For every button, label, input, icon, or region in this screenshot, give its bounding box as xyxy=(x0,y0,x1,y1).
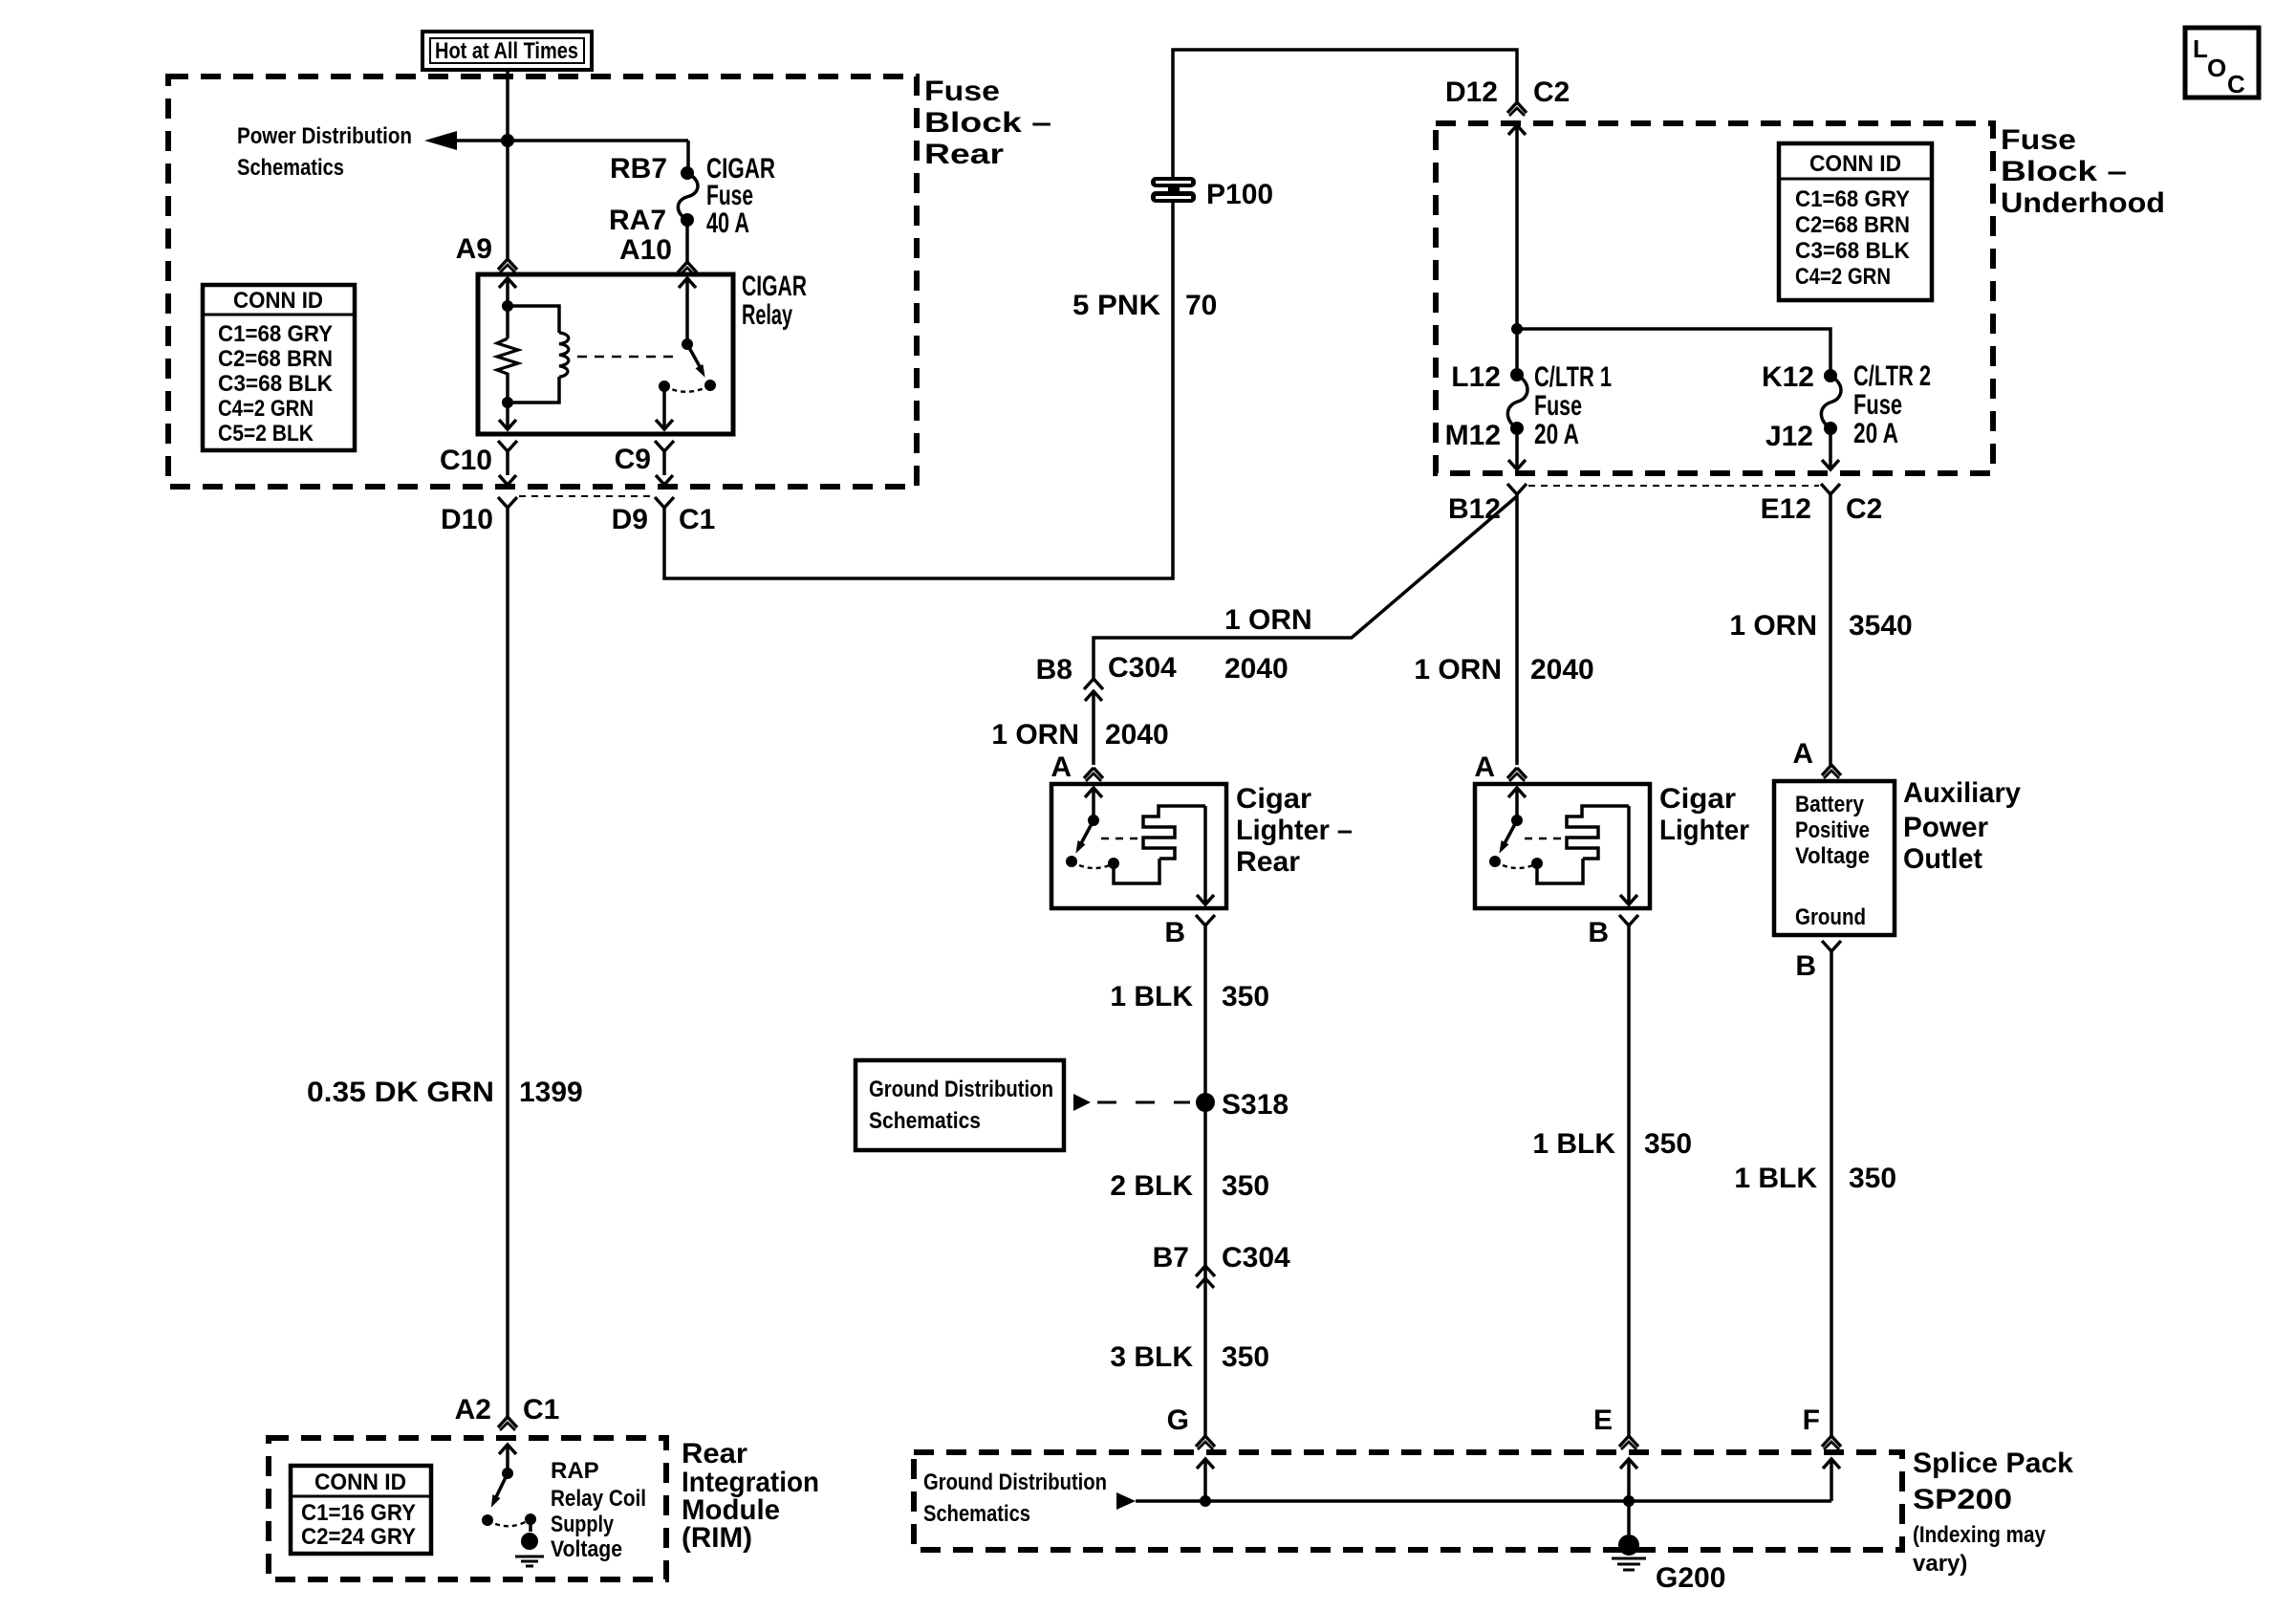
svg-text:Outlet: Outlet xyxy=(1903,843,1982,875)
svg-text:Cigar: Cigar xyxy=(1236,783,1311,815)
svg-text:B: B xyxy=(1164,917,1185,948)
svg-text:A9: A9 xyxy=(456,233,492,265)
svg-text:C1: C1 xyxy=(523,1394,559,1426)
svg-text:O: O xyxy=(2207,54,2226,82)
svg-text:B: B xyxy=(1588,917,1609,948)
svg-text:RAP: RAP xyxy=(551,1458,599,1484)
svg-text:C304: C304 xyxy=(1222,1242,1290,1274)
svg-text:L12: L12 xyxy=(1451,361,1501,393)
svg-text:C1: C1 xyxy=(679,504,715,535)
svg-text:A: A xyxy=(1051,751,1072,783)
svg-text:D12: D12 xyxy=(1445,76,1498,108)
svg-text:(RIM): (RIM) xyxy=(682,1522,752,1554)
svg-text:Schematics: Schematics xyxy=(237,155,344,181)
svg-text:K12: K12 xyxy=(1762,361,1814,393)
svg-text:C4=2 GRN: C4=2 GRN xyxy=(1795,264,1891,290)
svg-text:350: 350 xyxy=(1849,1163,1896,1194)
svg-text:F: F xyxy=(1803,1404,1820,1436)
svg-text:C1=16 GRY: C1=16 GRY xyxy=(301,1500,416,1526)
svg-text:Voltage: Voltage xyxy=(1795,843,1870,869)
svg-text:Supply: Supply xyxy=(551,1512,615,1537)
svg-text:Rear: Rear xyxy=(1236,846,1300,878)
svg-text:C/LTR 2: C/LTR 2 xyxy=(1853,360,1931,392)
svg-text:C2=24 GRY: C2=24 GRY xyxy=(301,1524,416,1550)
svg-text:A2: A2 xyxy=(455,1394,491,1426)
svg-text:CONN ID: CONN ID xyxy=(1809,151,1901,177)
svg-text:G200: G200 xyxy=(1656,1562,1725,1594)
svg-text:L: L xyxy=(2193,34,2208,63)
svg-text:Hot at All Times: Hot at All Times xyxy=(435,38,578,64)
svg-text:S318: S318 xyxy=(1222,1089,1289,1121)
svg-text:40 A: 40 A xyxy=(706,207,749,239)
svg-text:5 PNK: 5 PNK xyxy=(1072,290,1160,321)
svg-text:1 ORN: 1 ORN xyxy=(1224,604,1312,636)
svg-text:20 A: 20 A xyxy=(1534,419,1579,450)
svg-text:Block –: Block – xyxy=(2001,156,2127,187)
svg-text:0.35 DK GRN: 0.35 DK GRN xyxy=(307,1077,494,1108)
svg-text:350: 350 xyxy=(1222,981,1269,1012)
svg-text:1 BLK: 1 BLK xyxy=(1110,981,1193,1012)
svg-text:C2=68 BRN: C2=68 BRN xyxy=(218,346,333,372)
svg-text:C4=2 GRN: C4=2 GRN xyxy=(218,396,314,422)
svg-text:Relay: Relay xyxy=(742,299,792,331)
svg-text:1 BLK: 1 BLK xyxy=(1734,1163,1817,1194)
svg-text:D10: D10 xyxy=(441,504,493,535)
svg-text:vary): vary) xyxy=(1913,1551,1967,1577)
svg-text:A: A xyxy=(1792,738,1813,770)
svg-text:Voltage: Voltage xyxy=(551,1536,622,1562)
svg-text:A: A xyxy=(1474,751,1495,783)
svg-text:Relay Coil: Relay Coil xyxy=(551,1486,646,1512)
svg-text:C/LTR 1: C/LTR 1 xyxy=(1534,361,1612,393)
svg-text:C3=68 BLK: C3=68 BLK xyxy=(1795,238,1911,264)
svg-text:Ground: Ground xyxy=(1795,904,1866,930)
svg-text:Rear: Rear xyxy=(924,139,1004,170)
svg-text:Power Distribution: Power Distribution xyxy=(237,123,412,149)
svg-text:Schematics: Schematics xyxy=(923,1501,1030,1527)
svg-text:Fuse: Fuse xyxy=(2001,124,2076,156)
svg-text:Lighter –: Lighter – xyxy=(1236,815,1353,846)
svg-text:(Indexing may: (Indexing may xyxy=(1913,1522,2047,1548)
svg-text:Block –: Block – xyxy=(924,107,1051,139)
svg-text:A10: A10 xyxy=(619,234,672,266)
svg-text:1 ORN: 1 ORN xyxy=(1729,610,1817,642)
svg-text:C3=68 BLK: C3=68 BLK xyxy=(218,371,334,397)
svg-text:1 BLK: 1 BLK xyxy=(1532,1128,1615,1160)
svg-text:350: 350 xyxy=(1222,1170,1269,1202)
svg-text:3540: 3540 xyxy=(1849,610,1913,642)
svg-text:Ground Distribution: Ground Distribution xyxy=(869,1077,1053,1102)
svg-text:CIGAR: CIGAR xyxy=(742,271,807,302)
svg-text:C: C xyxy=(2227,70,2245,98)
svg-text:M12: M12 xyxy=(1445,420,1501,451)
svg-text:2 BLK: 2 BLK xyxy=(1110,1170,1193,1202)
svg-text:Battery: Battery xyxy=(1795,792,1865,817)
svg-text:Schematics: Schematics xyxy=(869,1108,981,1134)
svg-text:350: 350 xyxy=(1644,1128,1692,1160)
svg-text:C1=68 GRY: C1=68 GRY xyxy=(1795,186,1910,212)
svg-text:CONN ID: CONN ID xyxy=(314,1469,406,1495)
svg-text:E12: E12 xyxy=(1761,493,1811,525)
svg-text:C5=2 BLK: C5=2 BLK xyxy=(218,421,314,446)
svg-text:C1=68 GRY: C1=68 GRY xyxy=(218,321,333,347)
svg-text:2040: 2040 xyxy=(1530,654,1594,686)
svg-text:SP200: SP200 xyxy=(1913,1484,2012,1515)
svg-text:C9: C9 xyxy=(615,444,651,475)
svg-text:Cigar: Cigar xyxy=(1659,783,1736,815)
svg-text:B12: B12 xyxy=(1448,493,1501,525)
svg-text:B: B xyxy=(1795,950,1816,982)
svg-text:C2: C2 xyxy=(1846,493,1882,525)
svg-text:350: 350 xyxy=(1222,1341,1269,1373)
svg-text:C304: C304 xyxy=(1108,652,1177,684)
svg-text:1 ORN: 1 ORN xyxy=(991,719,1079,751)
svg-text:Fuse: Fuse xyxy=(1853,389,1902,421)
svg-text:Splice Pack: Splice Pack xyxy=(1913,1448,2073,1479)
svg-text:C10: C10 xyxy=(440,445,492,476)
svg-text:Auxiliary: Auxiliary xyxy=(1903,777,2021,809)
svg-text:B7: B7 xyxy=(1153,1242,1189,1274)
svg-text:3 BLK: 3 BLK xyxy=(1110,1341,1193,1373)
svg-text:G: G xyxy=(1167,1404,1189,1436)
svg-text:Underhood: Underhood xyxy=(2001,187,2165,219)
svg-text:J12: J12 xyxy=(1765,421,1813,452)
svg-text:RA7: RA7 xyxy=(609,205,666,236)
svg-text:B8: B8 xyxy=(1036,654,1072,686)
svg-text:Lighter: Lighter xyxy=(1659,815,1749,846)
svg-text:2040: 2040 xyxy=(1224,653,1289,685)
svg-text:Fuse: Fuse xyxy=(924,76,1000,107)
svg-text:Rear: Rear xyxy=(682,1438,747,1469)
svg-text:CONN ID: CONN ID xyxy=(233,288,323,314)
svg-text:1 ORN: 1 ORN xyxy=(1414,654,1502,686)
svg-text:C2=68 BRN: C2=68 BRN xyxy=(1795,212,1910,238)
svg-text:Ground Distribution: Ground Distribution xyxy=(923,1469,1107,1495)
svg-text:RB7: RB7 xyxy=(610,153,667,185)
svg-text:2040: 2040 xyxy=(1105,719,1169,751)
svg-text:1399: 1399 xyxy=(519,1077,583,1108)
svg-text:E: E xyxy=(1593,1404,1613,1436)
svg-text:P100: P100 xyxy=(1206,179,1273,210)
svg-text:Power: Power xyxy=(1903,812,1988,843)
svg-text:20 A: 20 A xyxy=(1853,418,1898,449)
svg-text:C2: C2 xyxy=(1533,76,1570,108)
svg-text:Positive: Positive xyxy=(1795,817,1870,843)
svg-text:70: 70 xyxy=(1185,290,1217,321)
svg-text:Fuse: Fuse xyxy=(1534,390,1582,422)
svg-text:D9: D9 xyxy=(612,504,648,535)
